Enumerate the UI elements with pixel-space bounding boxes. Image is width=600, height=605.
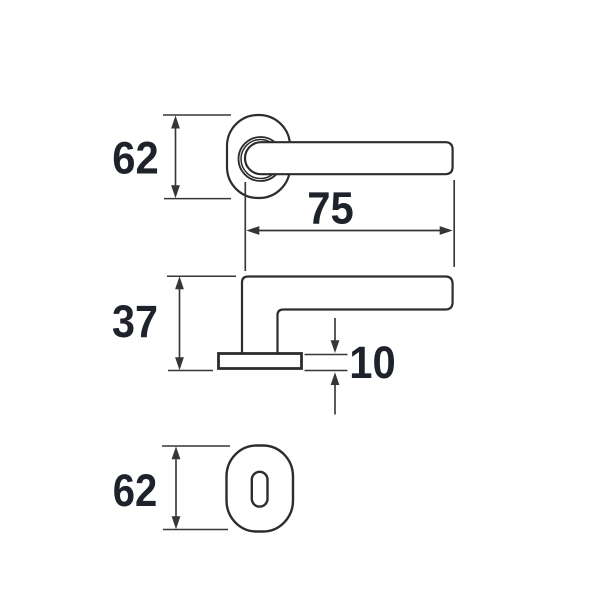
svg-text:62: 62 (113, 465, 158, 516)
svg-text:62: 62 (112, 132, 159, 183)
svg-text:10: 10 (349, 337, 396, 388)
svg-text:37: 37 (112, 296, 158, 347)
svg-text:75: 75 (307, 183, 354, 234)
